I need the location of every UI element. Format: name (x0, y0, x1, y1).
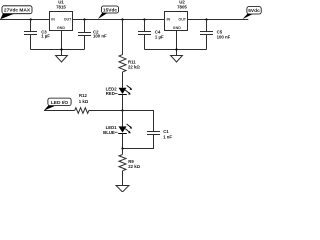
wire LED I/O to R12 (44, 110, 75, 112)
svg-text:GND: GND (173, 26, 181, 30)
junction dot C4/rail (143, 18, 145, 20)
wire U2 GND lead (176, 31, 178, 56)
wire 5V rail (188, 19, 249, 21)
svg-text:1 µF: 1 µF (155, 34, 164, 39)
capacitor C3 (24, 20, 50, 50)
wire input rail (0, 19, 50, 21)
svg-text:OUT: OUT (64, 17, 72, 21)
svg-text:27Vdc MAX: 27Vdc MAX (4, 8, 31, 14)
resistor R11 22 kOhm (119, 55, 140, 72)
resistor R12 1 kOhm (75, 93, 89, 113)
svg-text:BLUE: BLUE (103, 130, 115, 135)
wire C1 branch top (123, 111, 154, 132)
svg-text:GND: GND (57, 26, 65, 30)
junction dot C5/rail (205, 18, 207, 20)
svg-text:22 kΩ: 22 kΩ (128, 164, 140, 169)
wire R9 to ground (122, 171, 124, 186)
ground symbol bottom (116, 186, 129, 193)
node 5Vdc flag (243, 7, 262, 20)
svg-text:1 kΩ: 1 kΩ (79, 99, 89, 104)
svg-text:1 nF: 1 nF (163, 135, 172, 140)
IC U2 voltage regulator 7805 (165, 0, 188, 31)
wire LED1 to bottom junction (122, 134, 124, 149)
junction dot bottom node (121, 147, 123, 149)
svg-text:5Vdc: 5Vdc (248, 8, 260, 14)
IC U1 voltage regulator 7815 (50, 0, 73, 31)
wire R11 top lead (122, 20, 124, 55)
svg-text:7805: 7805 (177, 5, 187, 10)
svg-text:IN: IN (167, 17, 171, 21)
junction dot LED node (121, 109, 123, 111)
wire U1 GND lead (61, 31, 63, 56)
capacitor C2 (78, 20, 107, 50)
ground symbol U1 (56, 56, 68, 63)
svg-text:RED: RED (106, 91, 115, 96)
capacitor C4 (138, 20, 164, 50)
LED LED1 BLUE (103, 124, 132, 135)
svg-text:OUT: OUT (178, 17, 186, 21)
junction dot C3/rail (30, 18, 32, 20)
LED LED2 RED (106, 85, 133, 96)
node 15Vdc flag (98, 6, 119, 19)
node LED I/O flag (44, 98, 71, 111)
svg-text:7815: 7815 (56, 5, 66, 10)
wire junction to LED1 (122, 111, 124, 127)
ground symbol U2 (171, 56, 183, 63)
wire LED2 to junction (122, 95, 124, 111)
wire 15V rail (73, 19, 165, 21)
capacitor C5 (200, 20, 231, 50)
svg-text:R12: R12 (79, 93, 87, 98)
capacitor C1 (147, 129, 172, 140)
wire bottom junction to R9 (122, 149, 124, 155)
junction dot U1 gnd/bus (60, 48, 62, 50)
svg-text:1 µF: 1 µF (41, 33, 50, 38)
wire R12 to junction (89, 110, 123, 112)
svg-text:100 nF: 100 nF (217, 34, 231, 39)
wire bottom-right ground bus (145, 49, 207, 51)
junction dot C2/rail (83, 18, 85, 20)
svg-text:22 kΩ: 22 kΩ (128, 64, 140, 69)
svg-text:LED I/O: LED I/O (51, 100, 69, 106)
node 27Vdc MAX flag (0, 6, 32, 19)
svg-text:IN: IN (51, 17, 55, 21)
svg-text:C1: C1 (163, 129, 169, 134)
wire bottom-left ground bus (31, 49, 85, 51)
wire R11 to LED2 (122, 72, 124, 88)
svg-text:15Vdc: 15Vdc (103, 7, 117, 13)
resistor R9 22 kOhm (119, 155, 141, 171)
junction dot R11/rail (121, 18, 123, 20)
wire C1 branch bottom (123, 135, 154, 149)
svg-text:100 nF: 100 nF (93, 33, 107, 38)
junction dot U2 gnd/bus (175, 48, 177, 50)
